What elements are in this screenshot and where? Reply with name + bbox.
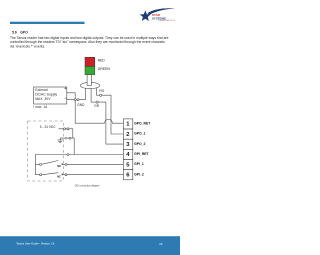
wire switch2 left stub (35, 174, 39, 176)
svg-text:DC/AC Supply: DC/AC Supply (35, 93, 57, 97)
node RO (100, 94, 102, 96)
wire lamp right down (95, 88, 97, 95)
wire vdc row (59, 129, 73, 138)
plug circles on supply minus wire (74, 99, 76, 101)
svg-text:RED: RED (98, 58, 106, 62)
switch2 pivot (40, 174, 42, 176)
svg-text:GPI_2: GPI_2 (134, 172, 144, 176)
switch2 contact stub (62, 174, 65, 176)
switch1 blade (42, 161, 58, 165)
switch bus (34, 155, 36, 175)
wire switch1 to pin 5 (67, 163, 123, 165)
logo text (152, 13, 175, 22)
wire supply minus to lamp common (67, 99, 86, 101)
wire switch1 left stub (35, 163, 39, 165)
dashed user boundary box (28, 121, 64, 181)
svg-text:GPO_1: GPO_1 (134, 132, 145, 136)
lamp stem (87, 74, 91, 85)
pin numbers (126, 122, 130, 179)
wire to RO (96, 94, 99, 96)
switch1 contact stub (62, 163, 65, 165)
svg-text:GREEN: GREEN (98, 67, 111, 71)
svg-text:2: 2 (126, 132, 129, 138)
wire GPI_RET row (35, 154, 123, 156)
supply box (34, 87, 67, 104)
lamp green (85, 66, 95, 74)
plus terminal (64, 87, 66, 89)
svg-text:SYSTEMS: SYSTEMS (152, 16, 166, 20)
switch2 contact (61, 174, 64, 176)
wire gnd row (60, 138, 74, 154)
svg-text:NO: NO (57, 164, 61, 168)
paragraph (10, 36, 169, 48)
switch2 out terminal (65, 174, 67, 176)
svg-text:GND: GND (77, 103, 85, 107)
switch2 blade (42, 173, 58, 175)
logo star (140, 8, 175, 21)
svg-text:Tarsus User Guide - Version 1.: Tarsus User Guide - Version 1.9 (16, 242, 55, 246)
minus terminal (64, 97, 66, 99)
wire GR to pin 3 (98, 102, 123, 144)
node GR (96, 101, 98, 103)
heading (12, 30, 28, 34)
svg-text:GPO_RET: GPO_RET (134, 122, 151, 126)
svg-text:NC: NC (57, 175, 61, 179)
svg-text:GR: GR (94, 104, 99, 108)
connector J1 (123, 119, 132, 180)
svg-text:MAX. 30V: MAX. 30V (35, 97, 51, 101)
svg-text:RO: RO (99, 89, 104, 93)
svg-text:5.6: 5.6 (12, 30, 17, 34)
wire supply plus to pin 1 (hops over GR/RO verticals) (67, 93, 124, 123)
wire lamp mid down (90, 89, 92, 103)
polarity tick on gnd row (65, 137, 67, 139)
switch1 contact (61, 163, 64, 165)
wire to GR (91, 101, 96, 103)
wire switch2 to pin 6 (67, 174, 123, 176)
svg-text:GPI_RET: GPI_RET (134, 152, 149, 156)
svg-text:22: 22 (159, 242, 163, 246)
switch1 out terminal (65, 163, 67, 165)
svg-text:GPI_1: GPI_1 (134, 162, 144, 166)
pin labels (134, 122, 151, 177)
svg-text:5 - 24 VDC: 5 - 24 VDC (40, 125, 56, 129)
wire RO to pin 2 (102, 95, 124, 134)
plug circle on gnd row (69, 137, 71, 139)
header rule (10, 22, 85, 24)
svg-text:via "event.dio.*" events.: via "event.dio.*" events. (10, 44, 45, 48)
plug circles on vdc row (63, 128, 65, 130)
ground symbol (58, 138, 63, 143)
lamp base ellipse (80, 82, 99, 88)
plug circle on ret row (67, 154, 69, 156)
lamp red (85, 57, 95, 66)
wire lamp left down (85, 88, 87, 99)
svg-text:External: External (35, 88, 48, 92)
svg-text:GPO: GPO (20, 30, 28, 34)
svg-text:DIO connection diagram: DIO connection diagram (75, 184, 100, 187)
footer bar (0, 236, 180, 255)
switch1 pivot (40, 163, 42, 165)
svg-text:GPO_2: GPO_2 (134, 142, 145, 146)
svg-text:I max. 1A: I max. 1A (33, 105, 48, 109)
